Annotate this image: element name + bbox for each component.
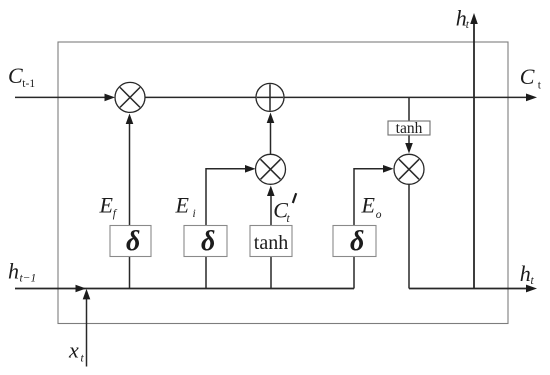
tanh box candidate [250,226,292,257]
label C_t-1 [8,63,35,90]
arrowhead on bottom h line [76,285,87,293]
svg-text:E: E [361,193,376,218]
multiplier X2 (candidate) [256,154,286,184]
svg-text:t-1: t-1 [22,78,35,90]
wire: candidate tanh vertical [270,194,272,289]
adder plus [256,83,284,111]
wire: output multiplier down [408,183,410,289]
wire: branch down to tanh [408,97,410,122]
arrowhead into adder from below [267,113,275,124]
svg-text:o: o [376,209,382,221]
cell boundary box [58,42,508,324]
wire: forget gate vertical [129,123,131,289]
arrowhead into X2 from left [245,165,256,173]
wire: bottom h line [15,288,354,290]
multiplier X1 (forget) [115,82,145,112]
label E_f [99,193,118,220]
wire: C line left segment [15,96,107,98]
wire: tanh to output multiplier [408,134,410,145]
arrowhead into X3 from left [383,165,394,173]
svg-text:E: E [175,193,190,218]
svg-text:t−1: t−1 [20,273,37,285]
svg-text:tanh: tanh [396,120,423,137]
svg-text:h: h [8,258,19,283]
label C_t prime [273,193,296,225]
sigma box output gate [333,226,376,258]
wire: h output line [409,288,528,290]
label h_t top [456,6,470,31]
svg-text:C: C [520,64,535,89]
arrowhead h_t output right [526,285,537,293]
svg-text:C: C [8,63,23,88]
svg-text:h: h [520,261,531,286]
svg-text:δ: δ [201,226,215,257]
svg-text:δ: δ [126,226,140,257]
arrowhead C_t output right [526,94,537,102]
arrowhead x_t up [83,289,91,300]
wire: C line middle segment [144,96,257,98]
wire: h_t recurrent vertical [473,22,475,289]
svg-text:tanh: tanh [254,232,288,254]
label x_t [68,337,85,364]
wire: x_t input vertical [86,297,88,367]
svg-text:x: x [68,337,79,362]
wire: output gate vertical and horizontal [354,169,386,289]
wire: candidate multiplier to adder [270,120,272,155]
arrowhead into X2 from below [267,186,275,197]
svg-text:E: E [99,193,114,218]
sigma box input gate [184,226,227,258]
arrowhead into X3 from above [405,143,413,154]
svg-text:i: i [193,208,196,220]
arrowhead h_t top [470,13,478,24]
arrowhead into X1 from left [105,94,116,102]
svg-text:δ: δ [350,226,364,257]
label C_t right [520,64,542,92]
label E_o [361,193,382,221]
arrowhead into X1 from below [126,114,134,125]
tanh box output [388,120,430,137]
wire: input gate vertical and horizontal [206,169,248,289]
multiplier X3 (output) [394,154,424,184]
label h_t right [520,261,535,287]
sigma box forget gate [110,226,151,258]
wire: C line right segment [283,96,528,98]
label E_i [175,193,196,221]
label h_t-1 left [8,258,36,284]
